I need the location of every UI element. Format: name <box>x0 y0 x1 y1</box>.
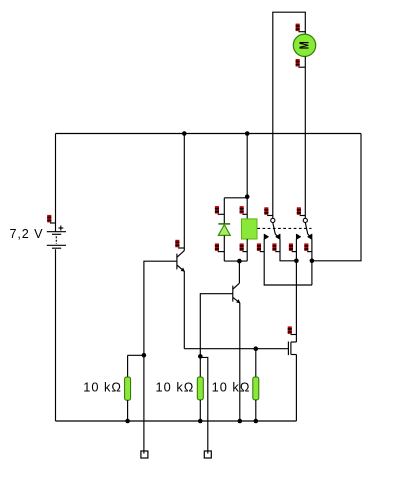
wire battery bottom lead <box>55 249 57 421</box>
wire R1 top to input1 column <box>128 354 144 356</box>
svg-text:10 kΩ: 10 kΩ <box>156 380 195 395</box>
node R3 bottom <box>254 419 259 424</box>
wire relay coil top lead <box>246 198 248 219</box>
input terminal 2 <box>204 451 211 458</box>
wire gate rail (Q1 emitter to MOSFET gate) <box>184 348 288 350</box>
node R2 bottom <box>198 419 203 424</box>
relay mechanical dashed link <box>257 227 311 229</box>
pin S1 right contact <box>272 243 280 251</box>
svg-text:10 kΩ: 10 kΩ <box>83 380 122 395</box>
switch S1 right contact arrow <box>276 234 280 239</box>
switch S2 left contact arrow <box>296 234 300 239</box>
node Q2 emitter at ground <box>238 419 243 424</box>
wire right rail from top rail to net B <box>312 134 361 261</box>
wire Q2 emitter down to ground <box>239 303 241 421</box>
wire relay bottom node horizontal <box>224 260 247 262</box>
pin battery <box>47 215 55 223</box>
switch S2 common circle <box>303 218 307 222</box>
wire battery top lead <box>55 134 57 232</box>
switch S2 right contact arrow <box>308 234 312 239</box>
wire S2 right contact down through net B <box>311 239 313 285</box>
pin relay coil top <box>240 206 248 214</box>
transistor Q1 (NPN) <box>177 251 185 272</box>
relay coil K1 <box>242 219 258 239</box>
pin S1 common <box>264 207 273 215</box>
pin motor top <box>296 24 306 32</box>
wire relay coil bottom lead <box>246 239 248 261</box>
wire motor bottom to switch2 common <box>304 57 306 219</box>
svg-text:7,2 V: 7,2 V <box>10 227 44 241</box>
pin MOSFET drain <box>288 326 297 334</box>
node rail/relay-drop <box>245 131 250 136</box>
resistor R1 <box>125 355 131 421</box>
wire MOSFET source to ground rail <box>295 355 297 422</box>
wire S1 right contact to net A <box>280 239 296 261</box>
wire Q2 base to R2 column <box>200 294 233 377</box>
wire Q1 base to input1 column <box>144 261 177 451</box>
node R2 top / Q2 base / input2 <box>198 354 203 359</box>
node rail/T1-collector <box>182 131 187 136</box>
wire diode top lead <box>223 198 225 224</box>
wire relay drop <box>246 134 248 198</box>
pin S2 common <box>297 207 306 215</box>
wire relay top node horizontal <box>224 197 247 199</box>
node R1 top / Q1 base / input1 <box>142 353 147 358</box>
wire S1 left contact to net B lower horizontal <box>264 239 312 285</box>
wire input2 branch <box>200 357 208 451</box>
pin diode top <box>215 206 224 214</box>
battery V1 7,2 V <box>47 232 66 249</box>
transistor Q2 (NPN) <box>233 283 241 303</box>
wire T1 collector <box>183 134 185 251</box>
pin S2 right contact <box>304 243 312 251</box>
pin S2 left contact <box>289 243 297 251</box>
svg-text:10 kΩ: 10 kΩ <box>212 380 251 395</box>
switch S1 left contact arrow <box>264 234 268 239</box>
wire Q2 collector <box>238 261 240 283</box>
node relay top <box>245 194 250 199</box>
pin motor bottom <box>296 59 306 67</box>
resistor R2 <box>197 377 203 421</box>
resistor R3 <box>253 349 259 421</box>
diode D1 (flyback) <box>218 224 230 236</box>
switch S2 lever <box>305 223 310 238</box>
wire diode bottom lead <box>223 235 225 261</box>
node relay bottom / Q2 collector <box>237 259 242 264</box>
battery plus sign <box>58 226 63 231</box>
pin relay coil bottom <box>240 243 248 251</box>
wire top rail (battery+ rail) <box>56 133 362 135</box>
node net B <box>310 259 315 264</box>
switch S1 common circle <box>271 218 275 222</box>
pin S1 left contact <box>257 243 264 251</box>
MOSFET Q3 <box>288 342 296 356</box>
wire bottom ground rail <box>56 420 297 422</box>
wire S2 left contact down to MOSFET drain <box>295 239 297 342</box>
svg-text:M: M <box>298 41 312 49</box>
node R3 top / gate rail <box>254 346 259 351</box>
wire motor loop top <box>273 12 306 218</box>
pin diode bottom <box>215 243 224 251</box>
node R1 bottom <box>125 419 130 424</box>
pin T1 collector <box>175 240 184 248</box>
wire Q1 emitter down <box>183 271 185 348</box>
node net A <box>294 259 299 264</box>
switch S1 lever <box>273 223 278 238</box>
input terminal 1 <box>141 451 148 458</box>
motor M1 <box>293 34 315 56</box>
